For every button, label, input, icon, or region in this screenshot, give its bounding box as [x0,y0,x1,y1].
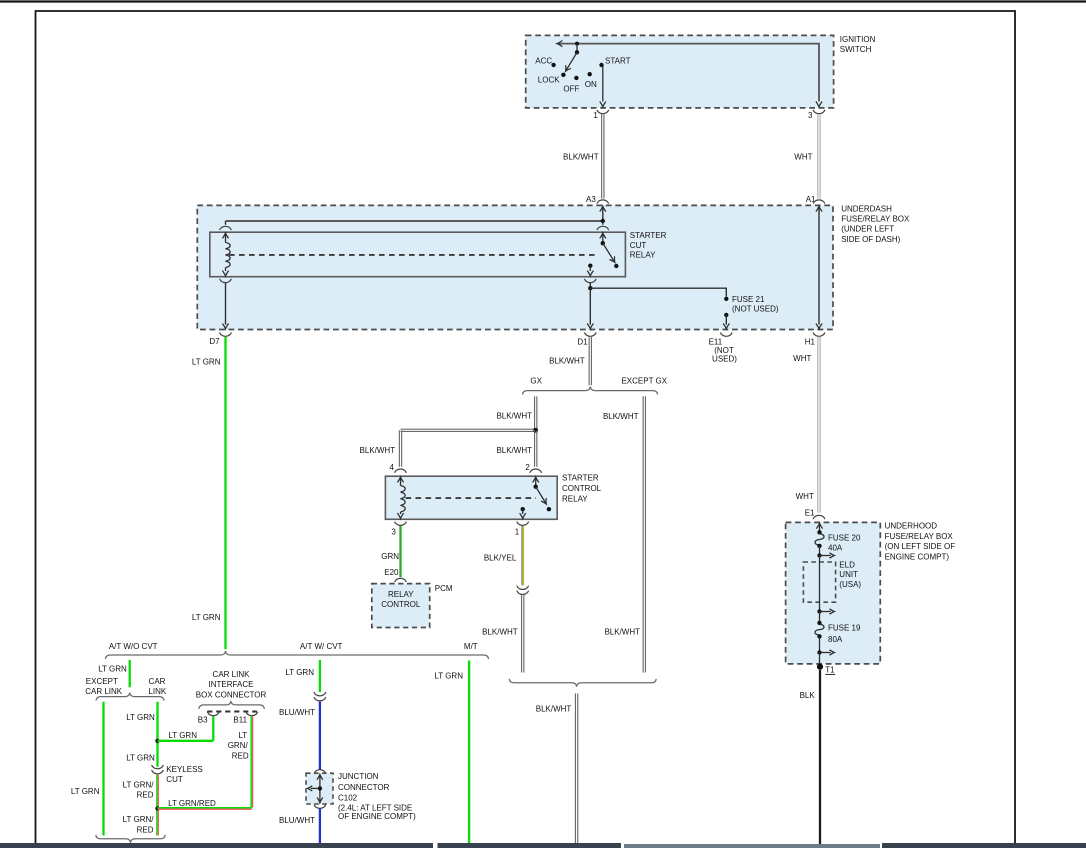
svg-text:LT GRN: LT GRN [126,713,155,722]
svg-text:BLK/WHT: BLK/WHT [496,411,532,420]
relay output lead [589,266,591,271]
E11 connector cup [720,333,732,337]
tap branch arrow right [820,611,831,613]
svg-text:ACC: ACC [535,56,552,65]
pin 1 connector cup [517,522,529,526]
coil-D7 connector cup [220,279,232,283]
E20 connector dome [395,578,407,582]
relay output exit arrowhead [587,271,593,276]
pin 3 exit arrowhead [816,102,822,107]
svg-text:3: 3 [391,528,396,537]
wire A1 to H1 inside box [818,206,820,324]
tap node above ELD [817,553,821,557]
junction node A3 bus [601,219,605,223]
relay output connector cup [584,279,596,283]
junction node GX branch [533,428,538,433]
svg-text:EXCEPT GX: EXCEPT GX [621,377,667,386]
fuse 19 lower terminal [817,634,821,638]
C102 internal bus [319,774,321,803]
relay coil exit arrowhead [222,271,228,276]
svg-text:RELAY: RELAY [562,494,588,503]
lower tap node [817,650,821,654]
wire A3 to junction [602,206,604,221]
svg-text:RED: RED [137,791,154,800]
wire BLK/WHT connector down to merge brace [521,595,523,672]
svg-text:BLU/WHT: BLU/WHT [279,816,315,825]
wire LT GRN B3 down to tap [212,716,214,741]
ignition switch arm toward LOCK [566,52,577,71]
H1 connector cup [813,333,825,337]
svg-text:BLK/WHT: BLK/WHT [496,446,532,455]
wire E1 to fuse 20 [819,523,821,532]
svg-text:CAR: CAR [149,677,166,686]
svg-text:1: 1 [593,111,598,120]
wire fuse 19 to lower tap [819,636,821,652]
wire BLK/WHT GX branch [534,396,536,430]
fuse 21 upper terminal [724,297,728,301]
wire to fuse 19 [819,612,821,623]
contact OFF [574,76,578,80]
svg-text:CUT: CUT [630,241,647,250]
pin 3 connector cup [395,522,407,526]
control relay output contact [521,507,525,511]
control relay coil exit arrowhead [397,513,403,518]
control relay output exit arrowhead [520,513,526,518]
wire BLK/WHT D1 down to GX brace [588,337,590,385]
svg-text:40A: 40A [828,544,843,553]
svg-text:80A: 80A [828,635,843,644]
svg-text:RED: RED [232,751,249,760]
H1 exit arrowhead [816,324,822,329]
control relay open contact [547,507,551,511]
D7 connector cup [220,333,232,337]
wire GRN pin 3 to E20 [399,526,401,577]
svg-text:BLK/WHT: BLK/WHT [482,628,518,637]
relay coil bottom lead [225,268,227,272]
control relay switch arm arrowhead [541,498,546,504]
junction connector C102 box [306,773,333,804]
svg-text:BLK: BLK [800,691,816,700]
svg-text:D7: D7 [209,337,220,346]
svg-text:CONTROL: CONTROL [381,600,421,609]
svg-text:H1: H1 [805,337,816,346]
contact ON [588,72,592,76]
wire BLK/WHT EXCEPT GX branch down to merge brace [642,396,644,672]
wire BLU/WHT down to junction connector C102 [319,702,321,770]
svg-text:1: 1 [515,528,520,537]
svg-text:B3: B3 [198,715,208,724]
svg-text:STARTER: STARTER [562,474,599,483]
wire coil bottom to D7 [225,283,227,325]
svg-text:LT GRN: LT GRN [285,668,314,677]
svg-text:BLK/WHT: BLK/WHT [603,412,639,421]
pin 2 connector dome [530,469,542,473]
svg-text:WHT: WHT [796,492,814,501]
coil branch drop wire [225,221,227,225]
ignition rotor pivot [575,50,579,54]
relay switch top lead [602,233,604,243]
wire LT GRN/RED junction to B11 riser [158,807,252,809]
ignition bus left arrowhead [557,41,562,47]
bottom component bar far left [0,843,433,848]
starter cut relay box [210,232,626,277]
svg-text:STARTER: STARTER [630,231,667,240]
svg-text:GX: GX [530,377,542,386]
E1 entry arrowhead [816,523,822,528]
svg-text:CAR LINK: CAR LINK [85,687,123,696]
A1 entry arrowhead [816,206,822,211]
svg-text:LT GRN/: LT GRN/ [123,780,155,789]
transmission split brace [105,651,488,659]
wire lower tap to T1 [819,653,821,667]
control relay switch arm [536,487,547,504]
svg-text:SIDE OF DASH): SIDE OF DASH) [841,235,900,244]
contact ACC [551,63,555,67]
car link merge brace [96,835,165,843]
svg-text:LT GRN/: LT GRN/ [123,815,155,824]
wire relay output down to junction [589,283,591,288]
wire LT GRN car-link branch upper [156,702,158,767]
wire through ELD unit [819,556,821,612]
junction node car link tap [155,739,159,743]
relay switch pivot [601,241,605,245]
E1 connector dome [813,515,825,519]
bottom component bar middle light [624,844,880,848]
control relay coil top lead [400,477,402,486]
svg-text:IGNITION: IGNITION [840,35,876,44]
inline connector BLK/YEL to BLK/WHT [517,586,529,590]
D1 exit arrowhead [587,324,593,329]
svg-text:RELAY: RELAY [388,590,414,599]
underdash fuse/relay box [197,205,833,329]
svg-text:(2.4L: AT LEFT SIDE: (2.4L: AT LEFT SIDE [338,803,412,812]
bottom component bar second [438,843,622,848]
svg-text:UNDERHOOD: UNDERHOOD [885,522,938,531]
svg-text:2: 2 [525,463,530,472]
svg-text:PCM: PCM [435,584,453,593]
coil branch connector dome [220,226,232,230]
svg-text:JUNCTION: JUNCTION [338,772,379,781]
svg-text:RED: RED [137,825,154,834]
svg-text:SWITCH: SWITCH [840,45,872,54]
svg-text:FUSE/RELAY BOX: FUSE/RELAY BOX [841,215,910,224]
svg-text:UNDERDASH: UNDERDASH [841,205,892,214]
svg-text:B11: B11 [233,715,247,724]
C102 branch arrow left [311,787,320,789]
pin 4 connector dome [395,469,407,473]
underhood fuse/relay box [786,522,881,664]
D1 connector cup [584,333,596,337]
svg-text:BLK/WHT: BLK/WHT [536,705,572,714]
starter control relay box [385,476,557,519]
svg-text:OFF: OFF [563,84,579,93]
car link connector dashed bar [207,711,257,713]
contact START [599,63,603,67]
wire BLK/WHT merged down to page bottom [574,694,576,845]
svg-text:ELD: ELD [839,561,855,570]
wire LT GRN M/T branch to page bottom [468,661,470,845]
svg-text:CONNECTOR: CONNECTOR [338,783,390,792]
relay switch arm [603,243,615,262]
ignition switch arm arrowhead [566,65,571,71]
E11 exit arrowhead [723,324,729,329]
svg-text:CUT: CUT [166,775,183,784]
relay switch entry arrowhead [600,233,606,238]
svg-text:BLK/WHT: BLK/WHT [604,628,640,637]
relay coil entry arrowhead [222,233,228,238]
wire LT GRN except-car-link branch [102,702,104,836]
svg-text:CONTROL: CONTROL [562,484,602,493]
fuse 20 upper terminal [817,530,821,534]
svg-text:BLK/WHT: BLK/WHT [549,357,585,366]
fuse 19 element [815,624,824,635]
C102 entry arrowhead [317,775,323,780]
ELD unit box [803,562,835,602]
svg-text:BOX CONNECTOR: BOX CONNECTOR [196,690,267,699]
svg-text:GRN/: GRN/ [228,741,249,750]
terminal B3 connector cup [207,712,219,716]
car link split brace [96,693,164,701]
svg-text:M/T: M/T [464,642,478,651]
svg-text:LT GRN: LT GRN [192,357,221,366]
relay coil top lead [225,233,227,243]
svg-text:A/T W/O CVT: A/T W/O CVT [109,642,158,651]
GX split brace [523,387,658,395]
junction node D1/fuse21 [588,286,592,290]
svg-text:BLK/WHT: BLK/WHT [360,446,396,455]
inline connector LT GRN to BLU/WHT [314,692,326,696]
control relay link dashed line [406,497,537,499]
svg-text:4: 4 [390,463,395,472]
svg-text:UNIT: UNIT [839,570,858,579]
bottom component bar right [882,843,1086,848]
tap node below ELD [817,609,821,613]
svg-text:BLK/YEL: BLK/YEL [484,554,517,563]
svg-text:LOCK: LOCK [538,75,560,84]
svg-text:FUSE 19: FUSE 19 [828,624,861,633]
relay link dashed line [229,254,599,256]
wire BLK T1 to page bottom [819,670,821,844]
wire LT GRN tap to B3 [158,740,214,742]
svg-text:GRN: GRN [381,552,399,561]
terminal T1 node [817,664,823,670]
svg-text:A1: A1 [806,195,816,204]
wire LT GRN D7 down to transmission brace [224,337,226,650]
ignition switch box [526,35,834,108]
svg-text:LT: LT [238,731,247,740]
fuse 20 element [815,534,824,545]
svg-text:WHT: WHT [794,152,812,161]
A3 entry arrowhead [600,206,606,211]
wire WHT H1 down to E1 [817,337,819,513]
control relay coil entry arrowhead [397,477,403,482]
starter cut relay coil [226,243,231,268]
wire switch junction down to D1 [589,288,591,324]
svg-text:ON: ON [585,80,597,89]
relay switch output contact [588,264,592,268]
svg-text:LT GRN: LT GRN [434,672,463,681]
svg-text:LT GRN: LT GRN [126,753,155,762]
control relay output lead [522,509,524,514]
terminal B11 connector cup [246,712,258,716]
junction node keyless branch [155,806,159,810]
switch branch drop wire [602,221,604,225]
pin 3 connector cup [813,110,825,114]
svg-text:START: START [605,56,631,65]
svg-text:LT GRN: LT GRN [192,613,221,622]
ignition bus wire from battery feed to pin 3 [558,44,819,102]
svg-text:USED): USED) [712,354,737,363]
control relay switch pivot [534,485,538,489]
svg-text:KEYLESS: KEYLESS [166,765,202,774]
svg-text:OF ENGINE COMPT): OF ENGINE COMPT) [338,812,416,821]
svg-text:A/T W/ CVT: A/T W/ CVT [300,642,343,651]
fuse 20 lower terminal [817,544,821,548]
svg-text:E20: E20 [384,568,399,577]
pin 1 connector cup [597,110,609,114]
pin 1 exit arrowhead [600,102,606,107]
svg-text:E1: E1 [805,508,815,517]
terminal A1 connector dome [813,200,825,204]
svg-text:FUSE 20: FUSE 20 [828,533,861,542]
svg-text:BLK/WHT: BLK/WHT [563,152,599,161]
terminal A3 connector dome [597,200,609,204]
svg-text:C102: C102 [338,794,358,803]
wire LT GRN/RED keyless cut to lower junction [156,775,158,836]
svg-text:FUSE 21: FUSE 21 [732,295,765,304]
svg-text:(NOT USED): (NOT USED) [732,304,779,313]
tap branch arrow right [820,555,831,557]
wire WHT ignition pin 3 to A1 [817,114,819,198]
wire fuse 20 to tap [819,546,821,556]
PCM relay control box [372,584,430,628]
svg-text:ENGINE COMPT): ENGINE COMPT) [885,553,950,562]
ignition rotor node on bus [575,42,579,46]
fuse 21 lower terminal [724,313,728,317]
switch branch connector dome [597,226,609,230]
ignition rotor stem wire [576,44,578,53]
svg-text:(UNDER LEFT: (UNDER LEFT [841,225,894,234]
wire BLK/WHT junction to pin 4 branch [401,428,538,430]
wire fuse 21 to E11 [725,315,727,325]
svg-text:WHT: WHT [793,354,811,363]
svg-text:LINK: LINK [148,687,166,696]
starter control relay coil [401,486,406,512]
wire BLK/WHT ignition pin 1 to A3 [601,114,603,198]
svg-text:LT GRN: LT GRN [168,731,197,740]
wire START contact to pin 1 [602,66,604,102]
wire BLK/WHT junction to pin 2 [534,430,536,467]
wire LT GRN A/T W CVT branch [319,660,321,692]
C102 junction node [318,786,322,790]
C102 exit cup [314,805,326,809]
C102 exit arrowhead [317,798,323,803]
wire BLK/YEL pin 1 down [521,526,523,586]
svg-text:T1: T1 [825,666,835,675]
svg-text:CAR LINK: CAR LINK [213,670,251,679]
svg-text:A3: A3 [586,195,596,204]
svg-text:3: 3 [808,111,813,120]
C102 entry dome [314,770,326,774]
svg-text:(ON LEFT SIDE OF: (ON LEFT SIDE OF [885,542,956,551]
bus wire junction to coil branch [226,220,603,222]
merge brace to starter feed [509,679,656,687]
svg-text:BLU/WHT: BLU/WHT [279,708,315,717]
wire BLU/WHT C102 to page bottom [319,809,321,844]
page top rule [0,0,1086,2]
svg-text:D1: D1 [577,337,588,346]
wire junction to fuse 21 [590,288,726,296]
svg-text:EXCEPT: EXCEPT [86,677,118,686]
control relay switch top lead [535,477,537,487]
svg-text:LT GRN: LT GRN [98,664,127,673]
svg-text:RELAY: RELAY [630,251,656,260]
relay switch open contact [614,264,618,268]
svg-text:LT GRN: LT GRN [71,787,100,796]
relay switch arm arrowhead [609,256,614,262]
car link connector brace [199,701,264,709]
wire LT GRN A/T W/O CVT branch [129,660,131,687]
D7 exit arrowhead [222,324,228,329]
fuse 19 upper terminal [817,621,821,625]
control relay coil bottom lead [400,512,402,514]
lower tap branch arrow right [820,652,831,654]
svg-text:LT GRN/RED: LT GRN/RED [168,799,216,808]
contact LOCK [561,73,565,77]
svg-text:INTERFACE: INTERFACE [209,680,254,689]
svg-text:(USA): (USA) [839,580,861,589]
control relay switch entry arrowhead [533,477,539,482]
svg-text:FUSE/RELAY BOX: FUSE/RELAY BOX [885,532,954,541]
wire LT GRN/RED B11 riser [250,716,252,808]
keyless cut inline connector [152,765,164,769]
